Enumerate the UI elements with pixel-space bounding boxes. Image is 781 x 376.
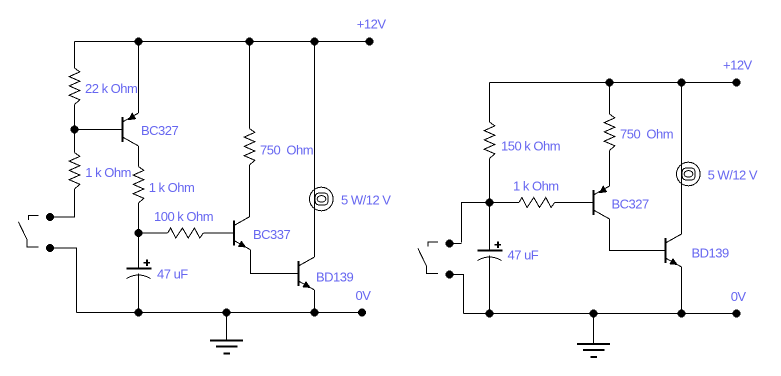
transistor Q5 BD139 (right) xyxy=(665,238,667,263)
wire xyxy=(138,203,140,233)
junction xyxy=(246,38,254,46)
capacitor C1 47 uF xyxy=(127,268,152,270)
node capacitor junction xyxy=(135,229,143,237)
lamp LP1 5 W/12 V xyxy=(310,187,334,211)
svg-text:750 Ohm: 750 Ohm xyxy=(620,126,673,141)
svg-text:150 k Ohm: 150 k Ohm xyxy=(501,139,560,154)
terminal 0V xyxy=(358,309,366,317)
node 0V rail (right circuit) xyxy=(464,313,737,315)
wire xyxy=(74,105,76,130)
svg-text:BC327: BC327 xyxy=(141,123,179,138)
lamp LP2 5 W/12 V xyxy=(677,162,701,186)
svg-text:1 k Ohm: 1 k Ohm xyxy=(149,180,195,195)
wire BC327 base xyxy=(75,129,123,131)
svg-text:1 k Ohm: 1 k Ohm xyxy=(85,165,131,180)
svg-text:750 Ohm: 750 Ohm xyxy=(260,143,313,158)
switch S2 xyxy=(446,240,454,248)
svg-text:BD139: BD139 xyxy=(692,245,730,260)
wire Q4 collector xyxy=(610,219,666,251)
svg-text:5 W/12 V: 5 W/12 V xyxy=(341,192,391,207)
wire Q1 collector xyxy=(138,146,140,167)
node +12V rail (right circuit) xyxy=(490,82,737,84)
svg-text:0V: 0V xyxy=(731,289,747,304)
ground (right circuit) xyxy=(593,314,595,345)
svg-text:47 uF: 47 uF xyxy=(508,248,539,263)
ground (left circuit) xyxy=(226,313,228,341)
junction xyxy=(486,310,494,318)
junction xyxy=(678,79,686,87)
junction xyxy=(590,310,598,318)
wire xyxy=(249,42,251,129)
wire xyxy=(50,189,75,217)
wire xyxy=(489,203,491,251)
junction xyxy=(311,309,319,317)
wire Q2 emitter xyxy=(251,250,299,274)
terminal +12V (right) xyxy=(733,79,741,87)
wire Q2 collector xyxy=(249,165,251,217)
wire Q5 emitter xyxy=(681,267,683,314)
wire Q3 emitter xyxy=(314,290,316,313)
wire xyxy=(50,248,77,313)
wire xyxy=(609,83,611,115)
node +12V rail (left circuit) xyxy=(75,41,370,43)
wire xyxy=(555,202,594,204)
junction xyxy=(678,310,686,318)
node base junction (right) xyxy=(486,199,494,207)
junction xyxy=(135,38,143,46)
resistor 100 k Ohm xyxy=(168,228,204,238)
wire lamp branch xyxy=(314,42,316,258)
resistor 22 k Ohm xyxy=(69,68,80,105)
wire xyxy=(74,42,76,69)
terminal 0V (right) xyxy=(733,310,741,318)
resistor 750 Ohm xyxy=(244,129,255,166)
node base junction xyxy=(71,126,79,134)
wire Q4 emitter xyxy=(609,151,611,187)
svg-text:47 uF: 47 uF xyxy=(157,267,188,282)
wire xyxy=(203,232,234,234)
junction xyxy=(606,79,614,87)
resistor 1 k Ohm xyxy=(69,153,80,190)
wire xyxy=(139,232,168,234)
wire xyxy=(450,243,462,245)
svg-text:+12V: +12V xyxy=(723,57,753,72)
svg-text:BC327: BC327 xyxy=(612,197,650,212)
wire lamp branch (right) xyxy=(681,83,683,235)
junction xyxy=(311,38,319,46)
wire xyxy=(450,275,464,314)
wire xyxy=(138,274,140,313)
wire xyxy=(489,83,491,123)
transistor Q3 BD139 xyxy=(298,261,300,286)
wire xyxy=(462,203,520,243)
junction xyxy=(223,309,231,317)
junction xyxy=(135,309,143,317)
wire Q1 emitter xyxy=(138,42,140,114)
transistor Q1 BC327 xyxy=(122,117,124,142)
resistor 1 k Ohm (right) xyxy=(519,198,555,208)
svg-text:BC337: BC337 xyxy=(253,227,291,242)
capacitor C2 47 uF (right) xyxy=(478,250,503,252)
svg-text:22 k Ohm: 22 k Ohm xyxy=(85,81,137,96)
wire xyxy=(489,256,491,314)
transistor Q4 BC327 (right) xyxy=(593,190,595,215)
wire xyxy=(138,233,140,269)
svg-text:BD139: BD139 xyxy=(316,270,354,285)
svg-text:0V: 0V xyxy=(356,288,372,303)
wire xyxy=(489,159,491,203)
wire xyxy=(74,130,76,153)
svg-text:100 k Ohm: 100 k Ohm xyxy=(154,209,213,224)
terminal +12V xyxy=(366,38,374,46)
node 0V rail (left circuit) xyxy=(77,312,363,314)
svg-text:+12V: +12V xyxy=(357,16,387,31)
switch S1 xyxy=(46,213,54,221)
svg-text:1 k Ohm: 1 k Ohm xyxy=(513,179,559,194)
transistor Q2 BC337 xyxy=(233,221,235,246)
resistor 750 Ohm (right) xyxy=(604,114,615,151)
resistor 1 k Ohm (emitter of Q1) xyxy=(133,167,144,204)
svg-text:5 W/12 V: 5 W/12 V xyxy=(708,168,758,183)
resistor 150 k Ohm xyxy=(484,122,495,159)
